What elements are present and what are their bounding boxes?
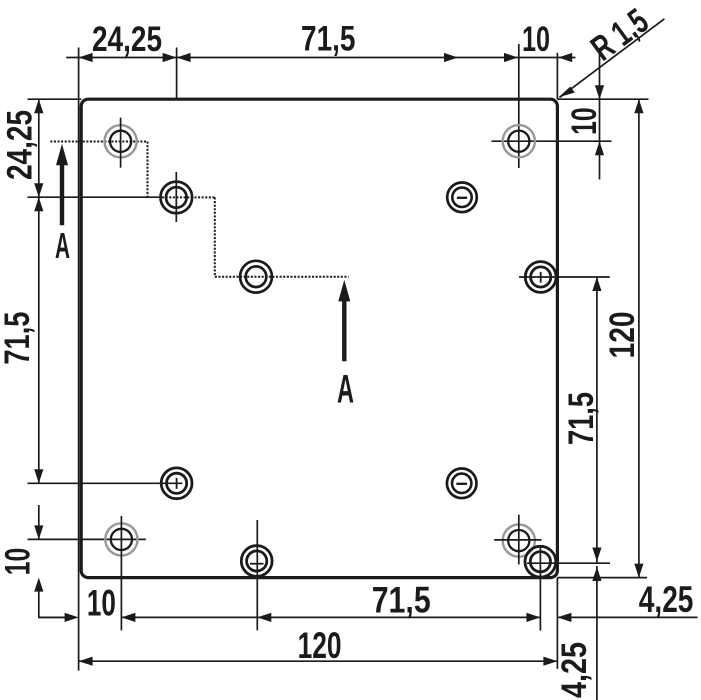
extension line hole column B top [176,48,178,100]
extension line y197 left [28,196,162,198]
left dim 10 upper segment [38,505,40,539]
plus hole bottom horizontal arm [250,563,264,565]
plus hole bottom-right inner ring [530,552,550,572]
arrow bottom 10 left outside [65,613,79,622]
top edge extension right [557,98,648,100]
plus hole bottom-right vertical centerline [539,546,541,631]
svg-text:4,25: 4,25 [639,578,694,620]
plus hole left vertical arm [176,478,178,489]
section arrow A middle [338,280,350,302]
hole bottom-right horizontal centerline [494,539,541,541]
plus hole right vertical arm [540,272,542,283]
arrow right 71,5 up [592,277,601,291]
top dimension line [66,57,575,59]
arrow 24,25 left [79,53,93,62]
extension line y539 left / hole centerline [28,538,146,540]
bottom chain dimension line right tail [557,616,697,618]
right 71,5 dimension line [596,277,598,563]
arrow right 10 up outside [595,141,604,155]
svg-text:24,25: 24,25 [0,110,39,180]
arrow 10 top left outside [504,53,518,62]
minus hole bottom outer ring [447,469,477,499]
hole bottom-right countersunk inner ring [508,530,529,551]
arrow bottom 71,5 left [257,613,271,622]
extension line / centerline hole top-right column [518,44,520,168]
hole bottom-right vertical centerline [518,515,520,565]
arrow right 10 down outside [595,85,604,99]
minus hole top inner ring [452,188,471,207]
hole top-right countersunk inner ring [508,131,529,152]
arrow left 71,5 up [34,197,43,211]
right 4,25 vertical dim line [596,566,598,700]
counterbore hole A2 vertical centerline [175,172,177,222]
plus hole bottom inner ring [247,551,267,571]
bottom 120 dimension line [79,660,558,662]
minus hole top outer ring [447,183,477,213]
svg-text:10: 10 [564,107,604,135]
plus hole right inner ring [531,267,551,287]
plus hole bottom outer ring [241,546,272,577]
bottom chain dimension line segment 10 [39,616,65,618]
svg-text:71,5: 71,5 [561,392,601,445]
left dim 10 lower elbow segment [39,590,66,617]
arrow left 10 up outside [34,578,43,592]
hole top-left countersunk grey ring [105,125,137,157]
counterbore hole A2 outer ring [161,182,193,214]
extension/centerline y563 right [527,562,610,564]
arrow left 24,25 up [34,99,43,113]
section line dotted horizontal step 2 [162,196,215,198]
bottom chain dimension line segment 71,5 [121,616,540,618]
counterbore hole A2 inner ring [166,187,187,208]
right 10 dimension line [599,53,601,180]
arrow bottom 71,5 right / 4,25 left [526,613,540,622]
section line dotted horizontal mid [215,276,349,278]
plus hole right outer ring [525,262,556,293]
hole bottom-left countersunk inner ring [111,529,132,550]
radius leader R1,5 [560,19,665,98]
right edge extension down [556,578,558,669]
plate outline [81,99,557,577]
arrow bottom 120 left [79,657,93,666]
hole bottom-right countersunk grey ring [503,525,535,557]
arrow bottom 10 right outside [121,613,135,622]
arrow 24,25 right [163,53,177,62]
svg-text:120: 120 [602,311,642,358]
arrow bottom 120 right [543,657,557,666]
hole bottom-left countersunk grey ring [105,523,137,555]
right 120 dimension line [638,99,640,577]
plus hole bottom-right outer ring [525,546,556,577]
svg-text:10: 10 [87,581,116,623]
hole top-right countersunk grey ring [503,125,535,157]
minus hole top bar [457,197,467,199]
section line dotted vertical step 1 [147,142,149,198]
extension/centerline y277 right [519,276,610,278]
extension line y483 left / hole centerline [28,482,183,484]
svg-text:4,25: 4,25 [554,642,594,698]
plus hole left inner ring [167,473,187,493]
hole top-left countersunk inner ring [110,131,131,152]
svg-text:10: 10 [0,548,38,576]
minus hole bottom inner ring [452,474,471,493]
svg-text:A: A [337,368,354,412]
arrow right 71,5 down [592,548,601,562]
arrow right 4,25 up outside [592,567,601,581]
arrow left 24,25 down [34,183,43,197]
hole bottom-left vertical centerline [120,516,122,630]
svg-text:120: 120 [298,624,342,666]
right edge extension up [556,53,558,99]
hole top-left vertical centerline [120,118,122,168]
arrow left 71,5 down [34,469,43,483]
radius leader arrowhead [559,87,575,98]
section line dotted vertical step 2 [214,197,216,276]
arrow right 120 down [634,564,643,578]
svg-text:24,25: 24,25 [92,19,162,59]
plus hole left outer ring [161,468,192,499]
svg-text:71,5: 71,5 [301,19,356,59]
svg-text:10: 10 [522,19,550,59]
svg-text:R 1,5: R 1,5 [584,1,656,69]
svg-text:71,5: 71,5 [372,578,431,620]
section line dotted horizontal top-left [50,141,147,143]
minus hole bottom bar [456,483,467,485]
counterbore hole mid inner ring [246,266,267,287]
left dimension line 71,5 [38,197,40,483]
top edge extension left [28,98,82,100]
svg-text:71,5: 71,5 [0,312,37,365]
arrow left 10 down outside [34,525,43,539]
counterbore hole mid outer ring [240,261,272,293]
extension/centerline y141 right [492,140,612,142]
arrow 71,5 right [444,53,458,62]
svg-text:A: A [55,225,70,266]
bottom edge extension right [557,577,647,579]
left edge extension line [78,48,80,671]
plus hole bottom vertical centerline [256,520,258,630]
left dimension line 24,25 [38,99,40,197]
arrow right 120 up [634,99,643,113]
section arrow A top-left [56,144,68,166]
arrow 71,5 left [177,53,191,62]
arrow 10 top right outside [558,53,572,62]
arrow bottom 4,25 right outside [557,613,571,622]
